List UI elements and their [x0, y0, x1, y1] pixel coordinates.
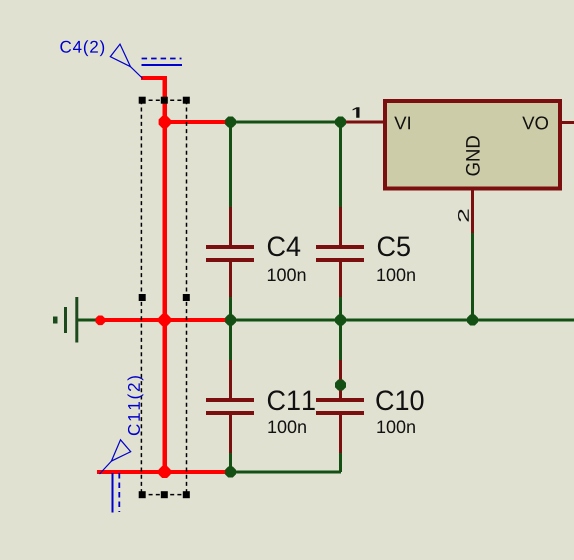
node: green junction (472.5,320)	[467, 315, 478, 326]
pin: regulator GND pin maroon	[471, 190, 474, 233]
net label C4(2) solid marks	[142, 64, 183, 66]
net label C11(2) pointer line	[100, 461, 112, 474]
regulator text VI	[394, 117, 410, 130]
node: green junction above C10 (340.5,385)	[335, 380, 346, 391]
pin: C5 bottom pin maroon	[339, 262, 342, 297]
wire: ground stem green	[78, 319, 98, 322]
node: ground terminal red octagon (100,320)	[96, 316, 106, 326]
wire: VO output stub maroon at right edge	[562, 121, 574, 124]
net label C11(2) solid marks	[112, 473, 114, 513]
wire: GND pin lead green down to rail	[471, 233, 474, 320]
selection handles	[139, 97, 190, 499]
node: red junction (164,472)	[159, 466, 171, 478]
wire: C5 top lead green	[339, 122, 342, 207]
net label C4(2) dashed mark	[142, 58, 182, 60]
pin number 2 (rotated)	[458, 209, 469, 221]
net label C4(2) triangle	[110, 44, 130, 67]
wire: middle rail red segment 98-230	[98, 318, 230, 322]
capacitor C5 label	[378, 236, 410, 256]
capacitor C5 plates	[316, 245, 364, 249]
capacitor C10 value	[377, 420, 415, 433]
wire: C4 top lead green	[229, 122, 232, 207]
pin: C4 bottom pin maroon	[229, 262, 232, 297]
capacitor C4 label	[268, 236, 300, 256]
node: green junction (340.5,122)	[335, 117, 346, 128]
node: green junction (340.5,320)	[335, 315, 346, 326]
wire: C5 bottom lead green	[339, 297, 342, 320]
node: red junction at top corner (164,122)	[159, 116, 171, 128]
net label C11(2) triangle	[111, 440, 130, 461]
wire: top rail green segment 230-340	[230, 121, 341, 124]
wire: vertical red net x=164	[163, 76, 167, 474]
net label C11(2) text (rotated)	[127, 376, 143, 435]
wire: bottom rail green segment 230-341	[230, 471, 341, 474]
wire: C4 bottom lead green	[229, 297, 232, 320]
capacitor C11 value	[268, 420, 306, 433]
capacitor C4 value	[268, 268, 306, 281]
wire: C11 bottom lead green	[229, 453, 232, 472]
capacitor C10 plates	[316, 398, 364, 402]
regulator text VO	[522, 116, 548, 129]
capacitor C11 plates	[206, 398, 254, 402]
wire: top rail red segment 164-230	[164, 120, 230, 124]
pin: C11 bottom pin maroon	[229, 415, 232, 453]
pin: C10 bottom pin maroon	[339, 415, 342, 453]
node: green junction (230.5,320)	[225, 315, 236, 326]
capacitor C5 value	[377, 268, 415, 281]
ground symbol	[53, 297, 78, 343]
wire: C10 top lead green	[339, 320, 342, 360]
pin: C5 top pin maroon	[339, 207, 342, 245]
wire: bottom rail red segment 97-230	[97, 470, 230, 474]
node: green junction (230.5,472)	[225, 467, 236, 478]
wire: pin 1 stub maroon to regulator VI	[341, 121, 384, 124]
wire: middle rail green segment 230-574	[230, 319, 574, 322]
wire: C11 top lead green	[229, 320, 232, 360]
net label C4(2) pointer line	[131, 67, 143, 79]
capacitor C11 label	[268, 390, 315, 410]
net label C11(2) dashed mark	[118, 473, 120, 512]
wire: C10 bottom lead green	[339, 453, 342, 472]
node: red junction (164,320)	[159, 314, 171, 326]
pin number 1	[353, 107, 360, 117]
pin: C10 top pin maroon	[339, 360, 342, 398]
wire: top flag stub (red, selected net)	[141, 76, 166, 80]
capacitor C4 plates	[206, 245, 254, 249]
node: green junction (230.5,122)	[225, 117, 236, 128]
selection box dashed outline	[141, 100, 186, 494]
pin: C4 top pin maroon	[229, 207, 232, 245]
pin: C11 top pin maroon	[229, 360, 232, 398]
regulator U? body	[385, 101, 560, 189]
capacitor C10 label	[376, 390, 423, 410]
regulator text GND (rotated)	[466, 136, 480, 175]
net label C4(2) text	[60, 40, 104, 56]
